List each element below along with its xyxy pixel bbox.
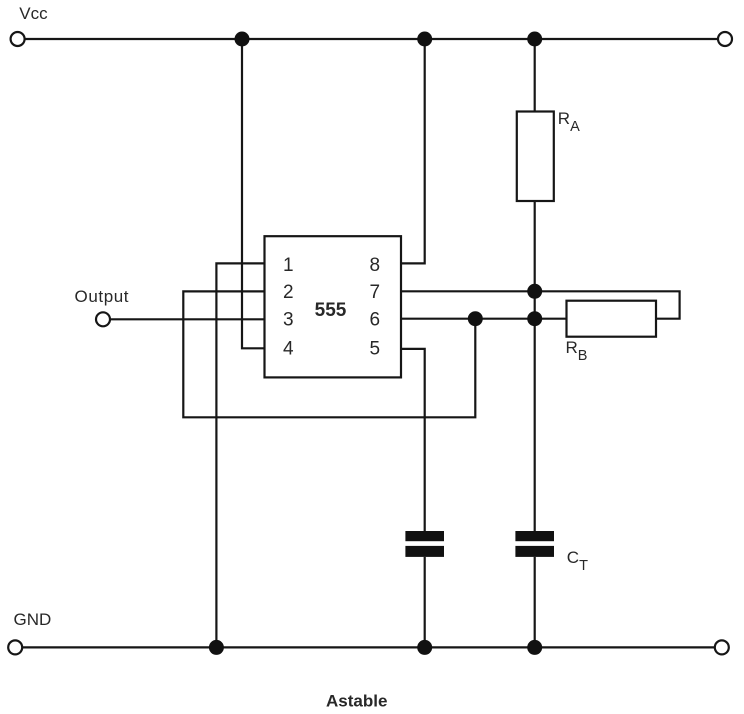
wire pin 3 to Output terminal — [110, 318, 264, 320]
capacitor C1 control top plate — [405, 531, 444, 541]
terminal GND left — [8, 640, 22, 654]
IC U1 555 body — [265, 236, 402, 377]
capacitor C1 control bottom plate — [405, 546, 444, 557]
junction Vcc/RA — [527, 32, 542, 47]
junction pin6/trigger loop — [468, 311, 483, 326]
svg-text:Vcc: Vcc — [19, 4, 48, 23]
svg-text:4: 4 — [283, 339, 294, 360]
junction Vcc/pin8 — [417, 32, 432, 47]
junction RA/pin7/RB — [527, 284, 542, 299]
wire pin 5 down to control capacitor — [401, 349, 425, 531]
wire pin7 node to pin6 node — [534, 291, 536, 318]
wire pin 1 to ground (left, down at x=216) — [216, 263, 264, 647]
svg-text:Astable: Astable — [326, 692, 387, 711]
svg-text:Output: Output — [75, 287, 130, 306]
svg-text:7: 7 — [370, 282, 381, 303]
svg-text:8: 8 — [370, 255, 381, 276]
wire Vcc top rail — [25, 38, 718, 40]
svg-text:3: 3 — [283, 309, 294, 330]
svg-text:2: 2 — [283, 282, 294, 303]
wire pin 8 up to Vcc rail — [401, 39, 425, 263]
capacitor CT bottom plate — [515, 546, 554, 557]
wire control capacitor to ground — [424, 557, 426, 648]
wire Vcc rail down to RA top — [534, 39, 536, 112]
svg-text:1: 1 — [283, 255, 294, 276]
junction GND/control cap — [417, 640, 432, 655]
wire GND bottom rail — [22, 646, 715, 648]
svg-text:5: 5 — [370, 339, 381, 360]
wire pin 7 to RA/RB node and loop to RB right end — [401, 291, 680, 318]
resistor RA body — [517, 112, 554, 202]
wire RA bottom to pin7 node — [534, 201, 536, 291]
wire pin 2 loop to trigger/threshold node — [183, 291, 475, 417]
wire pin6 node down to CT — [534, 319, 536, 531]
junction GND/CT — [527, 640, 542, 655]
capacitor CT top plate — [515, 531, 554, 541]
wire pin 6 to RB left end — [401, 318, 567, 320]
terminal Vcc right — [718, 32, 732, 46]
svg-text:GND: GND — [14, 610, 52, 629]
wire CT to ground — [534, 557, 536, 648]
junction Vcc/pin4 — [235, 32, 250, 47]
svg-text:6: 6 — [370, 309, 381, 330]
junction GND/pin1 — [209, 640, 224, 655]
terminal Output — [96, 312, 110, 326]
junction pin6/CT — [527, 311, 542, 326]
terminal GND right — [715, 640, 729, 654]
resistor RB body — [567, 301, 657, 337]
terminal Vcc left — [11, 32, 25, 46]
svg-text:555: 555 — [315, 300, 347, 321]
wire pin 4 up to Vcc rail — [242, 39, 265, 348]
